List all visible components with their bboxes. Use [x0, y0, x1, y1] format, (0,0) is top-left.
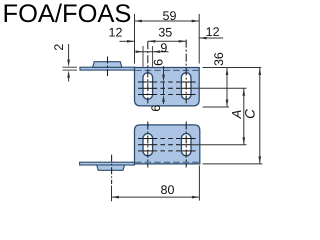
dim 9 label: [160, 41, 167, 55]
svg-text:FOA/FOAS: FOA/FOAS: [3, 0, 132, 28]
dim 2 line: [67, 44, 70, 82]
svg-text:59: 59: [163, 9, 177, 23]
dim 12 left: [120, 40, 135, 43]
svg-text:6: 6: [151, 59, 165, 66]
bottom leg bump: [97, 165, 125, 170]
dim 36: [226, 68, 229, 108]
top right slot: [181, 73, 191, 99]
svg-text:6: 6: [149, 105, 163, 112]
dim 12 right label: [206, 25, 220, 39]
top right slot centerline: [185, 40, 187, 104]
svg-text:35: 35: [158, 26, 172, 40]
top plate line y82.0: [138, 81, 196, 83]
ext line 9 right: [152, 46, 154, 67]
2-dim ticks: [63, 67, 78, 70]
ext line 80 left: [111, 186, 113, 202]
top plate: [135, 68, 200, 106]
bottom leg bar: [80, 162, 135, 165]
bottom right slot centerline: [185, 122, 187, 168]
bottom plate: [135, 125, 200, 164]
dim 12 right: [199, 37, 223, 40]
dim 2 label: [52, 44, 66, 51]
svg-text:12: 12: [206, 25, 220, 39]
top plate hidden bend line: [135, 69, 198, 71]
ext line 59 left: [134, 14, 136, 64]
dim 35: [148, 40, 186, 43]
dim 35 label: [158, 26, 172, 40]
bottom plate line y144.7: [138, 144, 247, 146]
dim 80: [112, 196, 200, 199]
ext line 80 right: [198, 165, 200, 200]
dim A: [242, 88, 245, 144]
top left slot centerline: [147, 41, 149, 103]
dim 12 left label: [109, 25, 123, 39]
svg-text:2: 2: [52, 44, 66, 51]
bottom left slot: [143, 134, 153, 156]
dim 80 label: [161, 183, 175, 197]
title FOA/FOAS: [3, 0, 132, 28]
top left slot: [143, 73, 153, 99]
dim 59: [135, 20, 200, 23]
svg-text:12: 12: [109, 25, 123, 39]
svg-text:9: 9: [160, 41, 167, 55]
top leg bump: [93, 62, 122, 68]
dim 6 line: [162, 66, 165, 104]
svg-text:80: 80: [161, 183, 175, 197]
bottom bump centerline: [111, 155, 113, 184]
bottom right slot: [181, 134, 191, 156]
ext line 59 right: [198, 14, 200, 64]
dim 6 bottom label: [149, 105, 163, 112]
bottom left slot centerline: [147, 122, 149, 168]
dim 36 label: [212, 52, 226, 66]
bottom plate line y138.5: [138, 138, 196, 140]
dim 59 label: [163, 9, 177, 23]
dim C: [258, 68, 261, 164]
top bump centerline: [107, 57, 109, 78]
top plate line y94.5: [138, 94, 196, 96]
svg-text:C: C: [243, 109, 258, 119]
bottom plate line y150.9: [138, 150, 196, 152]
bottom plate hidden bend line: [135, 161, 199, 163]
ext line 9 left: [142, 46, 144, 67]
svg-text:36: 36: [212, 52, 226, 66]
dim 9: [136, 50, 169, 53]
plate bottom leader: [203, 106, 229, 108]
top edge leader: [203, 67, 262, 69]
bottom edge leader: [203, 163, 263, 165]
top plate line y88.3: [138, 87, 247, 89]
dim A label: [229, 110, 244, 120]
top leg bar: [80, 67, 135, 70]
dim 6 top label: [151, 59, 165, 66]
dim C label: [243, 109, 258, 119]
